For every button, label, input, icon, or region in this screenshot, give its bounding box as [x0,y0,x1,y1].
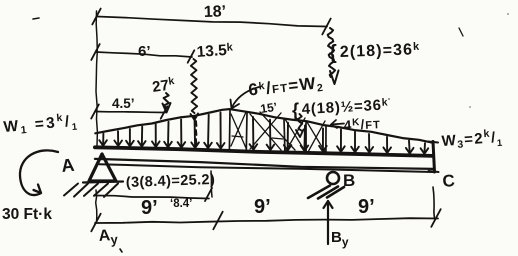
beam top chord [95,147,433,156]
load arrows left region [102,134,104,146]
svg-text:{: { [292,100,299,120]
load arrows right region [340,129,342,151]
svg-text:9’: 9’ [141,197,158,219]
label 4k/Ft with arrow [331,120,337,128]
svg-text:6’: 6’ [138,43,151,60]
svg-text:(3(8.4)=25.2): (3(8.4)=25.2) [126,172,216,191]
dashed line at 13.5k location [195,121,198,126]
beam right end cap [433,142,435,173]
extension line left lower [96,190,97,223]
svg-text:C: C [442,171,456,191]
cross hatching in w2 region [231,114,246,148]
moment arrow 30 ft-k [20,150,58,195]
svg-text:18’: 18’ [204,3,227,21]
svg-text:‘8.4’: ‘8.4’ [170,198,192,210]
distributed load top edge [95,109,433,143]
extension line left (x=96) [96,11,97,146]
force 2(18)=36k squiggle arrow [328,28,335,77]
dimension line 4.5' [95,112,165,113]
stray mark top right [459,28,463,36]
svg-text:{: { [329,42,337,64]
beam bottom chord line 2 [99,164,433,172]
roller support B hatching [308,186,330,199]
svg-text:B: B [343,171,355,190]
force 4(18)1/2=36k squiggle arrow [298,114,302,131]
svg-text:A: A [60,155,75,176]
svg-text:4.5’: 4.5’ [112,96,135,111]
dimension line 8.4' [95,196,209,199]
arrow from 6k/ft label to peak [232,87,259,107]
roller support B circle [327,172,339,184]
extension line right (x=433) [433,187,435,219]
load section divider lines [228,110,231,150]
svg-text:30 Ft·k: 30 Ft·k [2,206,52,223]
beam bottom chord line 1 [95,159,434,169]
stray mark top left [33,18,39,19]
svg-text:9’: 9’ [254,196,271,218]
svg-text:9’: 9’ [358,196,375,218]
load arrows middle region [252,117,254,150]
dimension line 6' [96,52,192,57]
reaction arrow By [327,201,329,244]
bottom dimension line 9+9+9 [95,218,438,223]
pin support A hatching [64,184,78,196]
svg-text:4K/FT: 4K/FT [343,116,381,133]
force 27k squiggle arrow [164,93,169,108]
svg-text:2(18)=36k: 2(18)=36k [340,41,421,61]
dimension line 18' [97,17,327,27]
pin support A base line [83,182,123,183]
extension line mid (x=211, 8.4 dim) [211,171,212,197]
svg-text:15’: 15’ [259,100,277,116]
force 13.5k squiggle arrow [191,59,197,113]
pin support A triangle [89,154,116,181]
